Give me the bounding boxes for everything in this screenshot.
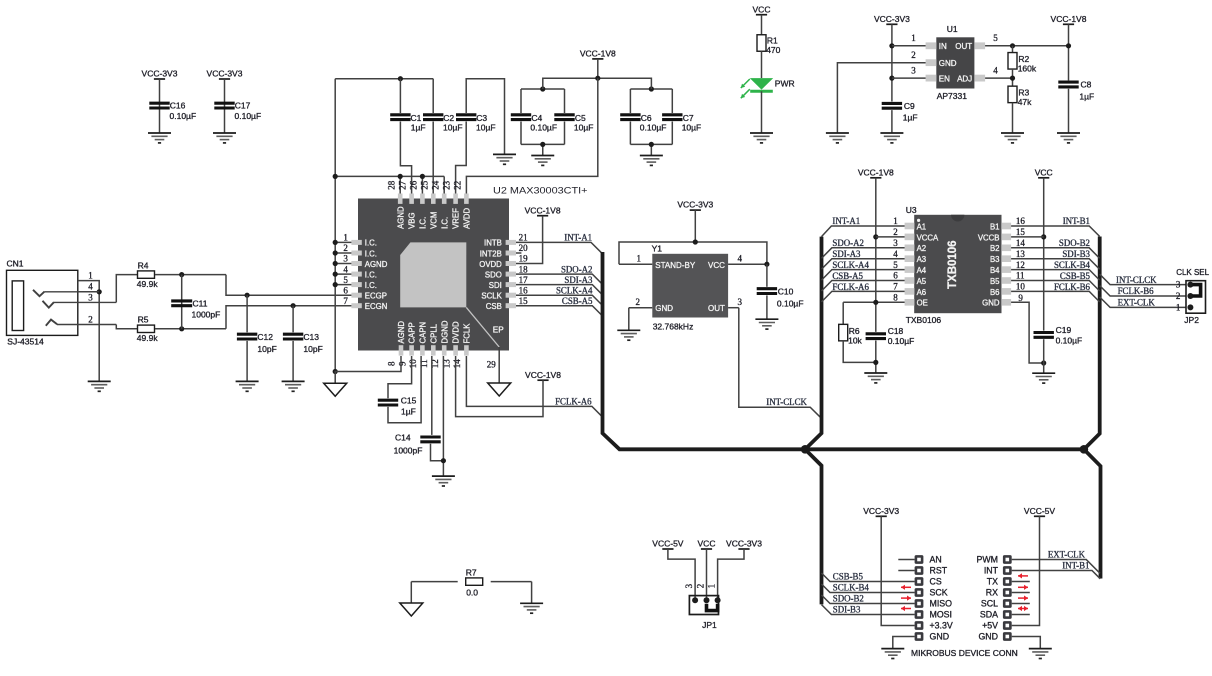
- capacitor C16: [149, 103, 169, 108]
- mikrobus left header: [915, 555, 924, 564]
- svg-text:7: 7: [343, 296, 348, 306]
- svg-text:U2 MAX30003CTI+: U2 MAX30003CTI+: [493, 186, 588, 196]
- wire SDI-B3 to MOSI: [822, 605, 915, 615]
- svg-text:C19: C19: [1056, 325, 1072, 335]
- svg-text:13: 13: [1016, 249, 1026, 259]
- svg-text:470: 470: [766, 45, 780, 55]
- svg-text:B1: B1: [990, 222, 1000, 231]
- svg-text:0.10µF: 0.10µF: [235, 111, 262, 121]
- capacitor C15: [378, 400, 398, 405]
- wire C17: [224, 79, 226, 133]
- wire SCL stub: [1012, 603, 1030, 605]
- JP1 shunt: [707, 604, 718, 611]
- junction pin28: [398, 174, 403, 179]
- svg-text:49.9k: 49.9k: [137, 333, 159, 343]
- svg-text:GND: GND: [978, 632, 998, 642]
- wire SDO-B2 to bus: [1011, 248, 1100, 258]
- U3 left pin 7 A6: [905, 288, 915, 295]
- bus junction left: [801, 445, 810, 454]
- svg-text:47k: 47k: [1018, 97, 1032, 107]
- svg-text:VCC-3V3: VCC-3V3: [726, 539, 762, 549]
- svg-text:C2: C2: [443, 113, 454, 123]
- svg-text:18: 18: [519, 264, 529, 274]
- junction VCCB: [1041, 234, 1046, 239]
- svg-text:C10: C10: [778, 286, 794, 296]
- wire VCC-5V to JP1 pin3: [668, 549, 695, 600]
- svg-text:SDO: SDO: [485, 270, 502, 279]
- bus junction right: [1080, 445, 1089, 454]
- arrow MOSI: [901, 606, 911, 611]
- U2 bottom pin 11 CPLL: [431, 345, 436, 355]
- capacitor C10: [766, 264, 768, 287]
- svg-text:FCLK: FCLK: [463, 323, 472, 344]
- junction C18 gnd: [873, 360, 878, 365]
- U3 right pin 12 B4: [1001, 266, 1011, 273]
- svg-text:SJ-43514: SJ-43514: [7, 336, 44, 346]
- svg-text:0.10µF: 0.10µF: [777, 298, 804, 308]
- U3 left pin 3 A2: [905, 245, 915, 252]
- svg-text:R3: R3: [1018, 87, 1029, 97]
- U2 right pin 19 OVDD: [506, 261, 516, 266]
- CN1 contact pin3: [43, 301, 54, 308]
- svg-text:2: 2: [696, 584, 706, 589]
- wire CSB-A5 to U3: [822, 281, 905, 292]
- wire pin13 DVDD to VCC-1V8: [456, 356, 543, 417]
- power VCC-1V8 top rail: [592, 58, 603, 60]
- svg-text:C12: C12: [257, 332, 273, 342]
- svg-text:2: 2: [893, 227, 898, 237]
- svg-text:B4: B4: [990, 266, 1000, 275]
- svg-text:6: 6: [343, 285, 348, 295]
- svg-text:27: 27: [398, 180, 408, 190]
- ground LED: [750, 133, 773, 143]
- svg-text:SDO-A2: SDO-A2: [561, 265, 593, 275]
- wire VCC to JP1 pin2: [706, 549, 708, 600]
- svg-text:16: 16: [1016, 216, 1026, 226]
- svg-text:ADJ: ADJ: [957, 74, 972, 83]
- junction VCC-1V8 rail: [595, 76, 600, 81]
- svg-text:INT-CLCK: INT-CLCK: [766, 397, 807, 407]
- U3 left pin 8 OE: [905, 299, 915, 306]
- svg-text:17: 17: [519, 275, 529, 285]
- svg-text:I.C.: I.C.: [365, 270, 377, 279]
- wire RX stub: [1012, 592, 1030, 594]
- ground mikrobus left: [881, 649, 904, 659]
- svg-text:1: 1: [343, 233, 348, 243]
- svg-text:10: 10: [408, 359, 418, 369]
- svg-text:SDI-A3: SDI-A3: [564, 275, 593, 285]
- U2 left pin 3 AGND: [351, 261, 361, 266]
- junction C1 top: [398, 76, 403, 81]
- wire ECGP net: [226, 275, 351, 296]
- svg-text:B6: B6: [990, 288, 1000, 297]
- U2 left pin 2 I.C.: [351, 251, 361, 256]
- wire INT-B1 to bus: [1011, 226, 1100, 236]
- JP2 pin 2: [1187, 293, 1193, 299]
- junction C11 bottom: [179, 326, 184, 331]
- U2 left pin 4 I.C.: [351, 272, 361, 277]
- junction AGND pin: [333, 261, 338, 266]
- svg-text:3: 3: [684, 583, 694, 588]
- arrow SCL: [1018, 596, 1028, 601]
- svg-text:5: 5: [893, 260, 898, 270]
- wire INTB INT-A1 net: [516, 242, 602, 253]
- ground DGND: [432, 476, 455, 486]
- svg-text:MIKROBUS DEVICE CONN: MIKROBUS DEVICE CONN: [911, 648, 1018, 658]
- U3 right pin 13 B3: [1001, 255, 1011, 262]
- svg-text:I.C.: I.C.: [365, 281, 377, 290]
- power VCC-3V3 for C17: [219, 78, 230, 80]
- U2 bottom pin 12 DGND: [442, 345, 447, 355]
- svg-text:0.10µF: 0.10µF: [640, 123, 667, 133]
- junction C10: [764, 262, 769, 267]
- svg-text:0.10µF: 0.10µF: [170, 111, 197, 121]
- wire FCLK-A6 to U3: [822, 291, 905, 302]
- svg-text:CPLL: CPLL: [429, 323, 438, 343]
- ground C8: [1057, 133, 1080, 143]
- arrow SDA: [1018, 606, 1028, 611]
- power VCC-1V8 at OVDD: [537, 215, 548, 217]
- svg-text:1: 1: [1176, 302, 1181, 312]
- wire pin12 DGND to ground: [442, 356, 444, 476]
- U2 top pin 26 I.C.: [420, 194, 425, 204]
- wire FCLK-B6 to bus: [1011, 291, 1100, 302]
- junction pin26: [420, 174, 425, 179]
- wire pin9 to C15: [388, 356, 412, 398]
- chassis ground EP: [488, 383, 511, 396]
- svg-text:2: 2: [636, 297, 641, 307]
- svg-text:1µF: 1µF: [401, 407, 416, 417]
- power VCC U3 right: [1038, 177, 1049, 179]
- svg-text:C3: C3: [476, 113, 487, 123]
- svg-text:C17: C17: [235, 101, 251, 111]
- wire PWM EXT-CLK net: [1012, 560, 1100, 574]
- svg-text:INT: INT: [984, 566, 999, 576]
- wire VCC-3V3 to JP1 pin1: [718, 549, 744, 600]
- resistor R1: [757, 35, 766, 52]
- junction C8 top: [1066, 43, 1071, 48]
- svg-text:C15: C15: [401, 396, 417, 406]
- svg-text:10: 10: [1016, 282, 1026, 292]
- svg-text:TX: TX: [987, 577, 998, 587]
- svg-text:I.C.: I.C.: [440, 217, 449, 229]
- svg-text:1: 1: [637, 254, 642, 264]
- wire CSB-A5 net from U2: [516, 306, 602, 316]
- svg-text:A5: A5: [917, 277, 927, 286]
- wire VCC-5V to +5V: [1012, 516, 1040, 625]
- capacitor C5: [554, 115, 574, 120]
- wire AN stub: [898, 559, 914, 561]
- wire INT-CLCK to JP2: [1100, 274, 1186, 284]
- svg-text:U1: U1: [947, 24, 958, 34]
- junction AGND pin: [333, 282, 338, 287]
- svg-text:11: 11: [1016, 271, 1025, 281]
- wire U3 GND pin 9: [1011, 302, 1044, 363]
- svg-text:CAPN: CAPN: [419, 322, 428, 344]
- svg-text:JP2: JP2: [1184, 315, 1199, 325]
- junction AGND left: [333, 174, 338, 179]
- svg-text:+5V: +5V: [982, 621, 998, 631]
- wire SCLK-A4 to U3: [822, 270, 905, 281]
- svg-text:GND: GND: [655, 304, 673, 313]
- LED PWR: [750, 78, 773, 90]
- ground Y1: [617, 330, 640, 340]
- svg-text:U3: U3: [906, 205, 917, 215]
- chassis ground left: [324, 383, 347, 396]
- bus branch V4 up to JP2: [1084, 237, 1100, 450]
- svg-text:8: 8: [893, 293, 898, 303]
- wire C4/C5 pair frame: [521, 88, 565, 90]
- svg-text:I.C.: I.C.: [365, 239, 377, 248]
- arrow SCK: [901, 585, 911, 590]
- U3 right pin 9 GND: [1001, 299, 1011, 306]
- U2 top pin 28 AGND: [398, 194, 403, 204]
- wire AGND top rail to pins 28 26 24: [334, 79, 336, 372]
- resistor R2: [1012, 46, 1014, 53]
- svg-text:VCC: VCC: [753, 4, 771, 14]
- junction C12: [245, 293, 250, 298]
- svg-text:C18: C18: [888, 326, 904, 336]
- svg-text:AN: AN: [930, 555, 942, 565]
- capacitor C1: [399, 79, 401, 113]
- junction DGND: [441, 458, 446, 463]
- capacitor C14: [420, 437, 440, 442]
- svg-text:0.10µF: 0.10µF: [530, 123, 557, 133]
- svg-text:CLK SEL: CLK SEL: [1176, 268, 1209, 277]
- svg-text:B3: B3: [990, 255, 1000, 264]
- power VCC-3V3 for C16: [154, 78, 165, 80]
- power VCC-5V JP1: [662, 548, 673, 550]
- arrow RX: [1018, 585, 1028, 590]
- U2 right pin 16 SCLK: [506, 293, 516, 298]
- capacitor C8: [1058, 82, 1078, 87]
- wire LED to ground: [761, 91, 763, 133]
- U2 bottom pin 10 CAPN: [420, 345, 425, 355]
- ground C19: [1032, 373, 1055, 383]
- svg-text:C1: C1: [411, 113, 422, 123]
- svg-text:VCCA: VCCA: [917, 233, 939, 242]
- svg-text:R5: R5: [138, 315, 149, 325]
- U3 left pin 1 A1: [905, 223, 915, 230]
- svg-text:INTB: INTB: [484, 239, 502, 248]
- svg-text:VCCB: VCCB: [978, 233, 1000, 242]
- svg-text:14: 14: [1016, 238, 1026, 248]
- svg-text:PWM: PWM: [977, 555, 999, 565]
- Y1 pin 2 wire to ground: [629, 307, 653, 309]
- svg-text:INT-B1: INT-B1: [1062, 561, 1089, 571]
- svg-text:SCLK-A4: SCLK-A4: [556, 286, 593, 296]
- ground under C6/C7: [640, 156, 663, 166]
- power VCC JP1: [701, 548, 712, 550]
- U2 right pin 18 SDO: [506, 272, 516, 277]
- svg-text:7: 7: [893, 282, 898, 292]
- power VCC-5V mikrobus: [1034, 515, 1045, 517]
- svg-text:21: 21: [519, 233, 528, 243]
- svg-text:R6: R6: [849, 326, 860, 336]
- capacitor C9: [882, 103, 902, 108]
- junction C6C7 top: [649, 86, 654, 91]
- svg-text:FCLK-A6: FCLK-A6: [832, 282, 869, 292]
- svg-text:SCLK-A4: SCLK-A4: [832, 260, 869, 270]
- svg-text:5: 5: [993, 33, 998, 43]
- svg-text:SCL: SCL: [981, 599, 998, 609]
- power VCC-3V3 Y1: [690, 209, 701, 211]
- svg-text:0.0: 0.0: [466, 587, 478, 597]
- wire SDO-B2 to MISO: [822, 595, 915, 604]
- svg-text:25: 25: [419, 180, 429, 190]
- wire SCLK-B4 to bus: [1011, 270, 1100, 281]
- wire pin14 FCLK-A6 net: [466, 356, 602, 417]
- JP2 shunt: [1193, 285, 1201, 296]
- capacitor C3: [456, 115, 476, 120]
- wire VCC to VCCB/C19: [1043, 178, 1045, 331]
- JP1 pin 3: [692, 597, 698, 603]
- svg-text:INT-A1: INT-A1: [832, 216, 860, 226]
- U2 left pin 6 ECGP: [351, 293, 361, 298]
- svg-text:14: 14: [452, 359, 462, 369]
- svg-text:SDO-B2: SDO-B2: [1059, 238, 1090, 248]
- svg-text:SCLK-B4: SCLK-B4: [1054, 260, 1091, 270]
- connector CN1 SJ-43514 body: [7, 270, 78, 335]
- svg-text:PWR: PWR: [775, 78, 795, 88]
- U2 left pin 1 I.C.: [351, 240, 361, 245]
- svg-text:INT-B1: INT-B1: [1063, 216, 1090, 226]
- junction IN: [889, 43, 894, 48]
- svg-text:STAND-BY: STAND-BY: [655, 261, 696, 270]
- junction C4C5 top: [540, 86, 545, 91]
- wire OE: [843, 301, 904, 303]
- svg-text:2: 2: [1176, 291, 1181, 301]
- capacitor C19: [1034, 333, 1054, 338]
- svg-text:23: 23: [442, 180, 452, 190]
- svg-text:10µF: 10µF: [476, 123, 496, 133]
- svg-text:GND: GND: [939, 59, 957, 68]
- junction C6C7 bottom: [649, 142, 654, 147]
- wire FCLK-B6 to JP2: [1100, 286, 1186, 296]
- svg-text:SCLK-B4: SCLK-B4: [833, 582, 870, 592]
- ground C9: [880, 133, 903, 143]
- svg-text:CS: CS: [930, 577, 942, 587]
- ground C18: [864, 373, 887, 383]
- svg-text:4: 4: [738, 254, 743, 264]
- svg-text:24: 24: [430, 180, 440, 190]
- svg-text:IN: IN: [939, 42, 947, 51]
- svg-text:CSB: CSB: [486, 302, 502, 311]
- U3 left pin 4 A3: [905, 255, 915, 262]
- ground C13: [282, 381, 305, 391]
- svg-text:A1: A1: [917, 222, 927, 231]
- svg-text:FCLK-B6: FCLK-B6: [1054, 282, 1091, 292]
- ground C10: [755, 319, 778, 329]
- U1 pin3 EN wire: [892, 77, 926, 79]
- U2 right pin 20 INT2B: [506, 251, 516, 256]
- svg-text:10µF: 10µF: [574, 123, 594, 133]
- svg-text:9: 9: [397, 361, 407, 366]
- svg-text:3: 3: [893, 238, 898, 248]
- jumper JP1 body: [689, 596, 718, 615]
- U1 pin5 OUT wire: [985, 45, 1068, 47]
- svg-text:EXT-CLK: EXT-CLK: [1118, 298, 1156, 308]
- capacitor C4: [511, 115, 531, 120]
- resistor R4: [116, 275, 137, 303]
- U2 right pin 17 SDI: [506, 282, 516, 287]
- svg-text:INT2B: INT2B: [480, 249, 502, 258]
- svg-text:3: 3: [88, 292, 93, 302]
- svg-text:AGND: AGND: [397, 321, 406, 344]
- svg-text:TXB0106: TXB0106: [947, 240, 959, 289]
- JP2 pin 3: [1187, 282, 1193, 288]
- svg-text:10pF: 10pF: [257, 344, 276, 354]
- wire SCLK-B4 to SCK: [822, 584, 915, 593]
- power VCC-3V3 mikrobus: [876, 515, 887, 517]
- U2 top pin 27 VBG: [409, 194, 414, 204]
- svg-text:C16: C16: [170, 101, 186, 111]
- wire SDI-A3 net from U2: [516, 285, 602, 295]
- svg-text:3: 3: [738, 297, 743, 307]
- junction ADJ: [1010, 76, 1015, 81]
- ground CN1: [88, 381, 111, 391]
- svg-text:CN1: CN1: [7, 259, 24, 269]
- power VCC-3V3 JP1: [738, 548, 749, 550]
- svg-text:VCC-3V3: VCC-3V3: [207, 69, 243, 79]
- svg-text:9: 9: [1018, 293, 1023, 303]
- resistor R6: [842, 302, 844, 324]
- svg-text:AGND: AGND: [365, 260, 388, 269]
- U2 top pin 23 VREF: [453, 194, 458, 204]
- ground under C17: [213, 133, 236, 143]
- Y1 pin 1 wire: [619, 263, 652, 265]
- svg-text:VCC-3V3: VCC-3V3: [874, 14, 910, 24]
- wire C1 to pin27: [400, 122, 411, 194]
- wire C2 to pin25: [432, 122, 434, 194]
- capacitor C11: [181, 275, 183, 329]
- JP1 pin 1: [715, 597, 721, 603]
- arrow TX: [1018, 573, 1028, 578]
- jumper JP2: [1186, 281, 1206, 314]
- svg-text:SDI-A3: SDI-A3: [832, 249, 861, 259]
- svg-text:1: 1: [707, 584, 717, 589]
- wire EP pin 29 to ground: [498, 347, 500, 383]
- capacitor C2: [432, 79, 434, 113]
- svg-text:SDO-A2: SDO-A2: [832, 238, 864, 248]
- junction Y1 top: [693, 239, 698, 244]
- svg-text:A4: A4: [917, 266, 927, 275]
- svg-text:VCC: VCC: [698, 539, 716, 549]
- svg-text:C7: C7: [683, 113, 694, 123]
- svg-text:DGND: DGND: [440, 320, 449, 343]
- svg-text:RX: RX: [986, 588, 998, 598]
- svg-text:GND: GND: [982, 299, 1000, 308]
- svg-text:12: 12: [1016, 260, 1025, 270]
- junction C13: [291, 303, 296, 308]
- svg-text:FCLK-A6: FCLK-A6: [555, 397, 592, 407]
- wire VCC-1V8 rail: [543, 78, 652, 89]
- svg-text:EP: EP: [493, 326, 504, 335]
- wire ECGN net: [226, 306, 351, 329]
- svg-text:C4: C4: [531, 113, 542, 123]
- svg-text:A6: A6: [917, 288, 927, 297]
- svg-text:1µF: 1µF: [1079, 91, 1094, 101]
- bus branch to V0 up: [805, 237, 821, 450]
- wire AVDD riser pin22: [466, 78, 597, 193]
- wire EXT-CLK to JP2: [1100, 297, 1186, 307]
- svg-text:C6: C6: [641, 113, 652, 123]
- svg-text:TXB0106: TXB0106: [906, 315, 942, 325]
- svg-text:10µF: 10µF: [443, 123, 463, 133]
- svg-text:10pF: 10pF: [303, 344, 322, 354]
- capacitor C7: [662, 115, 682, 120]
- svg-text:+3.3V: +3.3V: [930, 621, 953, 631]
